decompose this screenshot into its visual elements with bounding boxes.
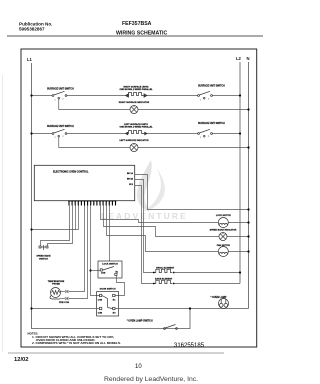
indicator lamp left surface indicator xyxy=(130,144,138,152)
svg-text:DOOR SWITCH: DOOR SWITCH xyxy=(100,289,116,291)
svg-text:FEF357BSA: FEF357BSA xyxy=(122,21,152,27)
watermark leadventure flame logo xyxy=(137,160,165,212)
svg-text:1: 1 xyxy=(200,137,201,139)
svg-text:RIGHT SURFACE UNITS: RIGHT SURFACE UNITS xyxy=(123,85,149,88)
wire riser pin8 to door switch com xyxy=(91,206,101,296)
heating element bake element xyxy=(154,280,173,283)
node junction lamp switch riser xyxy=(189,307,191,309)
svg-text:PROBE: PROBE xyxy=(52,284,60,286)
svg-text:BR 1B: BR 1B xyxy=(127,178,134,180)
wire riser pin14 to lock switch box top xyxy=(109,206,111,262)
wire lock motor to N xyxy=(228,222,248,224)
svg-text:2: 2 xyxy=(63,136,64,138)
svg-text:2: 2 xyxy=(208,99,209,101)
svg-text:LOCK SWITCH: LOCK SWITCH xyxy=(102,264,118,266)
footer rule xyxy=(8,352,224,354)
motor lock motor xyxy=(218,218,228,228)
switch surface unit switch row1 left xyxy=(52,91,67,99)
oven lamp xyxy=(219,299,229,309)
heating element left surface units row2 xyxy=(126,131,148,135)
svg-text:FAN MOTOR: FAN MOTOR xyxy=(217,244,231,247)
svg-text:ELECTRONIC OVEN CONTROL: ELECTRONIC OVEN CONTROL xyxy=(53,170,89,173)
node junction L2 broil xyxy=(239,271,241,273)
svg-text:BAKE ELEMENT: BAKE ELEMENT xyxy=(155,278,173,281)
switch surface unit switch row2 right xyxy=(198,129,213,137)
wire bake element to L2 xyxy=(174,283,240,285)
wire row2 left surface circuit L1 to L2 xyxy=(32,133,241,135)
door switch box xyxy=(97,292,119,316)
svg-text:1: 1 xyxy=(55,137,56,139)
node broil element terminal left xyxy=(153,272,155,274)
svg-text:5995382867: 5995382867 xyxy=(19,27,45,32)
svg-text:COM: COM xyxy=(98,299,103,301)
wire broil element to L2 xyxy=(174,272,240,274)
wire probe bottom lead to pin7 xyxy=(69,206,88,299)
svg-text:COM: COM xyxy=(98,312,103,314)
connector probe plug bottom xyxy=(65,297,68,300)
node junction L2 row2 xyxy=(239,132,241,134)
svg-text:SURFACE UNIT SWITCH: SURFACE UNIT SWITCH xyxy=(198,122,225,125)
switch oven lamp switch xyxy=(164,325,178,330)
EOC connector pin header comb xyxy=(69,201,116,206)
wire pin13 to fan motor line xyxy=(107,206,219,252)
wire EOC output 2 to broil element xyxy=(135,180,154,273)
lock switch box xyxy=(98,261,122,278)
svg-text:316255185: 316255185 xyxy=(174,343,205,349)
electronic oven control EOC box xyxy=(34,165,134,200)
svg-text:PRB CON: PRB CON xyxy=(59,302,70,304)
svg-text:2: 2 xyxy=(63,99,64,101)
svg-text:LOCK MOTOR: LOCK MOTOR xyxy=(216,215,231,217)
svg-text:2. COMPONENTS WITH * IS NOT: 2. COMPONENTS WITH * IS NOT APPLIED ON A… xyxy=(32,341,121,345)
node bake element terminal left xyxy=(153,283,155,285)
svg-text:SPEED BAKE: SPEED BAKE xyxy=(36,254,51,257)
svg-text:10: 10 xyxy=(135,364,142,370)
schematic outer border box xyxy=(21,49,257,347)
svg-text:* OVEN LAMP SWITCH: * OVEN LAMP SWITCH xyxy=(127,319,153,322)
wire probe top lead xyxy=(60,291,65,293)
wire row1 indicator branch to N xyxy=(59,99,130,110)
wire row2 indicator branch to N xyxy=(59,137,130,148)
node junction N EOC neutral xyxy=(247,208,249,210)
svg-text:SURFACE UNIT SWITCH: SURFACE UNIT SWITCH xyxy=(47,88,74,91)
wire bottom bus L1 to door switch com xyxy=(32,308,100,310)
wire speed bake indicator to N xyxy=(227,236,249,238)
svg-text:SURFACE UNIT SWITCH: SURFACE UNIT SWITCH xyxy=(198,85,225,88)
svg-text:12/02: 12/02 xyxy=(14,357,29,363)
wire EOC connector bar xyxy=(68,200,117,202)
svg-text:BK 1A: BK 1A xyxy=(127,172,134,175)
svg-text:N: N xyxy=(247,56,250,61)
wire door switch no to oven lamp to N xyxy=(115,308,249,310)
switch lock switch contacts xyxy=(100,267,117,276)
wire N rail xyxy=(248,62,250,309)
svg-text:COM: COM xyxy=(101,273,106,275)
wire fan motor to N xyxy=(228,251,248,253)
temperature probe sensor xyxy=(50,288,61,300)
node junction N row2 indicator xyxy=(247,146,249,148)
svg-text:RIGHT SURFACE INDICATOR: RIGHT SURFACE INDICATOR xyxy=(119,101,150,104)
svg-text:TEMPERATURE: TEMPERATURE xyxy=(48,280,65,283)
wire L2 rail xyxy=(239,62,241,284)
scan artifact left edge line xyxy=(2,75,4,352)
heating element right surface units row1 xyxy=(126,93,148,98)
node broil element terminal right xyxy=(173,272,175,274)
node bake element terminal right xyxy=(173,283,175,285)
node junction N fan motor xyxy=(247,250,249,252)
wire EOC output 3 to bake element xyxy=(135,186,154,284)
wire probe top lead to pin6 xyxy=(69,206,85,292)
header rule xyxy=(7,35,263,37)
node junction lock switch com riser xyxy=(89,269,91,271)
svg-text:1: 1 xyxy=(55,100,56,102)
node junction N row1 indicator xyxy=(247,108,249,110)
motor fan motor xyxy=(218,247,228,257)
switch surface unit switch row2 left xyxy=(52,129,67,137)
svg-text:SWITCH: SWITCH xyxy=(39,258,48,260)
svg-text:ONE SHOWN, 2 WIRED PARALLEL: ONE SHOWN, 2 WIRED PARALLEL xyxy=(119,126,153,129)
wire pin11 to lock motor line xyxy=(101,206,219,223)
svg-text:SURFACE UNIT SWITCH: SURFACE UNIT SWITCH xyxy=(47,125,74,128)
svg-text:L1: L1 xyxy=(27,57,33,62)
wire EOC output 1 to N xyxy=(135,175,249,210)
node junction L1 branch xyxy=(30,228,32,230)
node junction L1 row2 xyxy=(30,132,32,134)
node junction N lock motor xyxy=(247,221,249,223)
wire riser pin4 to L1 branch xyxy=(78,206,80,230)
svg-text:BROIL ELEMENT: BROIL ELEMENT xyxy=(156,267,174,269)
svg-text:* OVEN LAMP: * OVEN LAMP xyxy=(211,296,227,299)
wire row1 right surface circuit L1 to L2 xyxy=(32,95,241,97)
svg-text:1: 1 xyxy=(200,100,201,102)
wire L1 rail xyxy=(32,63,191,329)
connector probe plug top xyxy=(65,290,68,293)
svg-text:LEFT SURFACE UNITS: LEFT SURFACE UNITS xyxy=(124,123,148,126)
wire probe bottom lead xyxy=(60,298,65,300)
wire L1 branch to EOC xyxy=(32,229,79,231)
heating element broil element xyxy=(154,269,173,272)
node junction L1 row1 xyxy=(30,94,32,96)
switch speed bake switch xyxy=(39,245,48,250)
wire pin12 to speed bake indicator line xyxy=(104,206,220,237)
switch door switch contacts xyxy=(99,294,115,309)
switch surface unit switch row1 right xyxy=(198,91,213,99)
svg-text:W N: W N xyxy=(129,184,133,186)
wire riser pin3 to L1 branch xyxy=(75,206,77,230)
svg-text:LEFT SURFACE INDICATOR: LEFT SURFACE INDICATOR xyxy=(119,139,149,142)
svg-text:ONE SHOWN, 2 WIRED PARALLEL: ONE SHOWN, 2 WIRED PARALLEL xyxy=(119,88,153,91)
wire pin2 to speed bake switch terminal 2 xyxy=(48,206,73,247)
node junction L1 bottom bus xyxy=(30,307,32,309)
svg-text:SPEED BAKE INDICATOR: SPEED BAKE INDICATOR xyxy=(210,228,237,231)
svg-text:2: 2 xyxy=(208,136,209,138)
wire lock switch nc to door switch nc xyxy=(115,276,125,296)
indicator lamp right surface indicator xyxy=(130,106,138,114)
wire pin1 to speed bake switch terminal 1 xyxy=(41,206,70,247)
node junction L2 row1 xyxy=(239,94,241,96)
indicator lamp speed bake indicator xyxy=(219,233,227,241)
wire lock switch com stub xyxy=(91,270,101,272)
node junction N speed bake indicator xyxy=(247,235,249,237)
svg-text:L2: L2 xyxy=(236,56,242,61)
svg-text:Rendered by LeadVenture, Inc.: Rendered by LeadVenture, Inc. xyxy=(104,376,198,383)
